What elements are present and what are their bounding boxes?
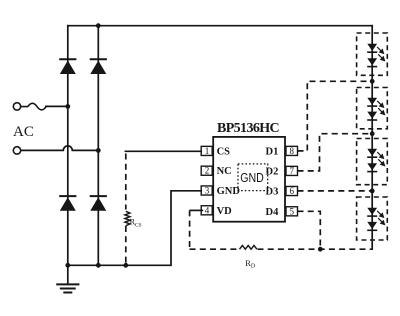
svg-text:D4: D4 bbox=[266, 207, 280, 218]
svg-text:GND: GND bbox=[217, 186, 241, 197]
svg-text:D1: D1 bbox=[266, 147, 279, 158]
svg-text:VD: VD bbox=[217, 206, 233, 217]
svg-text:CS: CS bbox=[135, 222, 142, 228]
svg-text:CS: CS bbox=[217, 147, 231, 158]
svg-text:GND: GND bbox=[240, 170, 264, 185]
svg-text:4: 4 bbox=[205, 205, 210, 215]
svg-text:D2: D2 bbox=[266, 166, 279, 177]
svg-text:6: 6 bbox=[289, 186, 294, 196]
svg-text:BP5136HC: BP5136HC bbox=[217, 121, 280, 136]
svg-text:8: 8 bbox=[289, 146, 294, 156]
svg-text:D: D bbox=[251, 264, 256, 270]
svg-text:D3: D3 bbox=[266, 187, 279, 198]
svg-text:3: 3 bbox=[205, 186, 210, 196]
svg-text:NC: NC bbox=[217, 166, 232, 177]
svg-text:2: 2 bbox=[205, 166, 210, 176]
svg-text:7: 7 bbox=[289, 166, 294, 176]
svg-text:AC: AC bbox=[13, 124, 34, 140]
svg-text:5: 5 bbox=[289, 206, 294, 216]
svg-text:1: 1 bbox=[205, 146, 210, 156]
